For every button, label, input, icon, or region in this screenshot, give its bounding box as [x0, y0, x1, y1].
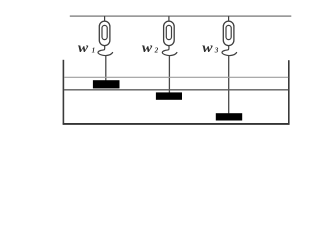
- liquid surface lower line: [64, 89, 288, 91]
- svg-text:w: w: [202, 41, 213, 56]
- spring balance 1 hanger stem: [104, 16, 106, 22]
- liquid surface upper line: [64, 76, 288, 78]
- svg-text:3: 3: [214, 46, 219, 54]
- spring balance 1 inner slot: [102, 25, 107, 39]
- tank bottom: [63, 123, 290, 125]
- weight W1: [93, 80, 120, 88]
- label w2: [142, 41, 159, 56]
- spring balance 3 outer body: [223, 21, 234, 45]
- tank right wall: [288, 60, 290, 124]
- label w3: [202, 41, 219, 56]
- weight W3: [216, 113, 242, 120]
- spring balance 2 inner slot: [166, 25, 171, 39]
- spring balance 2 hanger stem: [168, 16, 170, 22]
- spring balance 1 outer body: [99, 21, 110, 45]
- tank left wall: [62, 60, 64, 125]
- spring balance 2 hook: [162, 46, 177, 56]
- svg-text:1: 1: [92, 46, 96, 54]
- label w1: [78, 41, 95, 56]
- wire 2: [168, 55, 170, 92]
- svg-text:w: w: [142, 41, 153, 56]
- spring balance 3 inner slot: [226, 25, 231, 39]
- wire 1: [105, 55, 107, 80]
- svg-text:2: 2: [154, 46, 159, 54]
- spring balance 1 hook: [98, 46, 113, 56]
- spring balance 2 outer body: [164, 21, 175, 45]
- weight W2: [156, 92, 182, 99]
- spring balance 3 hook: [222, 46, 237, 56]
- svg-text:w: w: [78, 41, 89, 56]
- support beam: [70, 15, 291, 17]
- wire 3: [228, 55, 230, 113]
- spring balance 3 hanger stem: [228, 16, 230, 22]
